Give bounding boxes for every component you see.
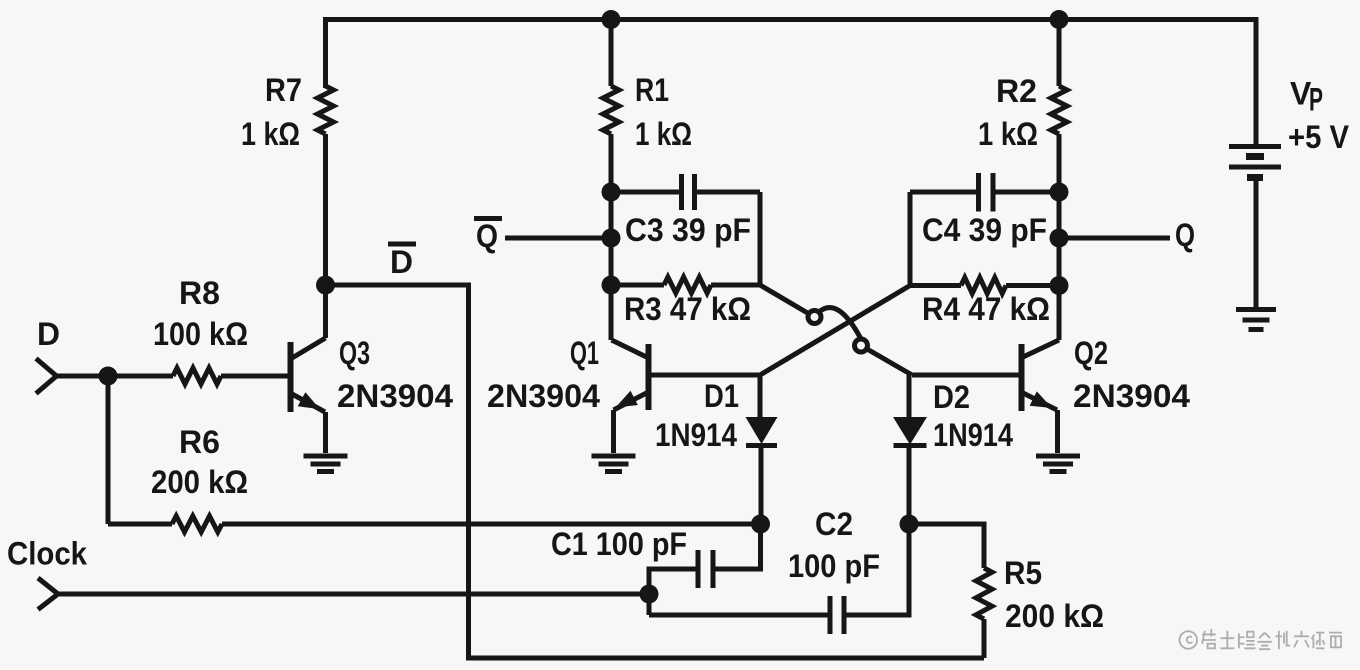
wire D input	[57, 374, 109, 379]
node D input dot	[99, 367, 118, 386]
svg-text:D2: D2	[933, 379, 970, 415]
svg-text:R6: R6	[179, 424, 220, 460]
battery VP	[1229, 144, 1281, 149]
wire C4 loop left side	[908, 192, 913, 286]
wire Qbar output	[505, 236, 611, 241]
resistor R5	[909, 524, 984, 568]
svg-text:200 kΩ: 200 kΩ	[1005, 598, 1104, 634]
svg-text:2N3904: 2N3904	[487, 378, 600, 414]
svg-text:P: P	[1309, 82, 1323, 118]
transistor Q3	[288, 342, 294, 412]
svg-text:1 kΩ: 1 kΩ	[978, 116, 1038, 152]
node hop circle 1	[808, 311, 821, 324]
resistor R7	[318, 86, 334, 134]
wire D node down to R6	[106, 376, 111, 524]
svg-text:R3 47 kΩ: R3 47 kΩ	[624, 291, 751, 327]
svg-text:R1: R1	[635, 72, 669, 108]
capacitor C3	[611, 190, 679, 195]
wire hop arc	[820, 308, 861, 338]
svg-text:200 kΩ: 200 kΩ	[151, 464, 248, 500]
resistor R8	[108, 374, 173, 379]
svg-text:Q1: Q1	[570, 335, 599, 371]
node Q1 collector dots	[602, 183, 621, 202]
svg-text:Q3: Q3	[339, 335, 370, 371]
svg-text:1 kΩ: 1 kΩ	[241, 116, 300, 152]
svg-text:Clock: Clock	[7, 536, 87, 572]
node top rail left dot	[602, 10, 621, 29]
node top rail right dot	[1050, 10, 1069, 29]
svg-text:C1 100 pF: C1 100 pF	[551, 526, 687, 562]
node Clock junction dot	[640, 585, 659, 604]
node Dbar junction dot	[316, 276, 335, 295]
node D2 cathode dot	[900, 515, 919, 534]
svg-text:Q: Q	[1175, 217, 1195, 253]
transistor Q2	[1019, 344, 1025, 411]
svg-text:D1: D1	[704, 378, 739, 414]
resistor R6	[108, 522, 172, 527]
svg-text:1N914: 1N914	[933, 417, 1013, 453]
port Clock chevron	[38, 578, 58, 610]
capacitor C4	[910, 190, 976, 195]
svg-text:R8: R8	[179, 275, 220, 311]
port D input chevron	[36, 359, 57, 394]
wire cross-coupling diagonal A (Q1 side to Q2 base) with hop	[760, 285, 811, 315]
svg-text:100 kΩ: 100 kΩ	[153, 316, 248, 352]
resistor R1	[609, 20, 614, 87]
svg-text:R7: R7	[265, 72, 302, 108]
svg-text:C3 39 pF: C3 39 pF	[625, 212, 751, 248]
svg-text:R2: R2	[996, 73, 1037, 109]
node D1 cathode dot	[751, 515, 770, 534]
svg-text:D: D	[37, 316, 60, 352]
diode D2	[907, 375, 912, 418]
node hop circle 2	[855, 339, 868, 352]
svg-text:Q2: Q2	[1074, 335, 1108, 371]
transistor Q1	[646, 344, 652, 410]
wire Q1 base row	[650, 373, 760, 378]
svg-text:1N914: 1N914	[655, 417, 737, 453]
svg-text:C4 39 pF: C4 39 pF	[922, 212, 1047, 248]
capacitor C2	[649, 613, 828, 618]
svg-text:R4 47 kΩ: R4 47 kΩ	[922, 291, 1050, 327]
svg-text:Q: Q	[476, 218, 498, 254]
svg-text:+5 V: +5 V	[1288, 119, 1350, 155]
diode D1	[758, 375, 763, 418]
svg-text:2N3904: 2N3904	[337, 378, 453, 414]
watermark	[1180, 629, 1342, 649]
svg-text:R5: R5	[1004, 555, 1042, 591]
node Q2 collector dots	[1050, 183, 1069, 202]
wire Q2 base row	[912, 373, 1019, 378]
resistor R3	[611, 283, 664, 288]
capacitor C1	[715, 524, 761, 569]
ground battery	[1236, 307, 1276, 312]
ground Q1	[592, 454, 636, 459]
wire Clock	[58, 592, 650, 597]
wire Q output	[1059, 236, 1170, 241]
ground Q3	[304, 454, 348, 459]
wire top supply rail	[326, 20, 1257, 146]
ground Q2	[1036, 454, 1080, 459]
wire R7 to Dbar node	[323, 134, 328, 285]
svg-text:1 kΩ: 1 kΩ	[635, 116, 692, 152]
svg-text:100 pF: 100 pF	[788, 548, 880, 584]
wire Dbar row, down and bottom rail to R5	[326, 285, 985, 658]
svg-text:D: D	[390, 244, 413, 280]
svg-text:C2: C2	[815, 506, 853, 542]
resistor R2	[1057, 20, 1062, 87]
resistor R4	[910, 283, 961, 288]
wire cross-coupling diagonal B (Q2 side to Q1 base)	[760, 286, 910, 376]
svg-text:2N3904: 2N3904	[1073, 378, 1190, 414]
wire C3 loop right side	[758, 192, 763, 285]
